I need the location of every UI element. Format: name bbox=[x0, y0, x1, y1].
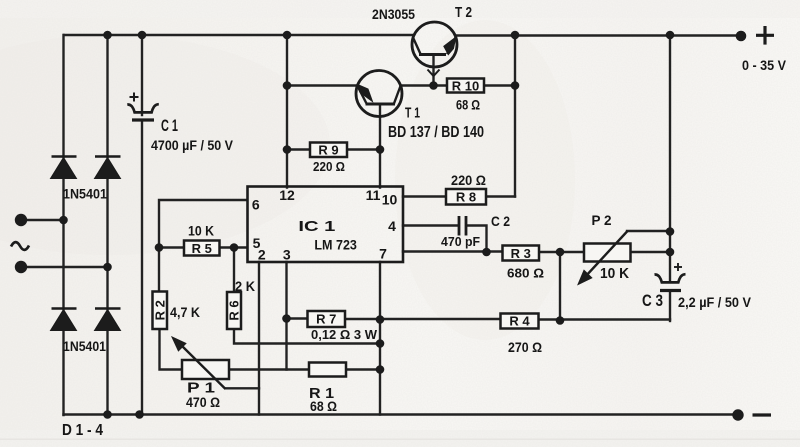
svg-text:1N5401: 1N5401 bbox=[63, 186, 107, 202]
svg-text:10 K: 10 K bbox=[188, 223, 214, 239]
svg-text:6: 6 bbox=[252, 197, 260, 213]
svg-text:10 K: 10 K bbox=[600, 265, 629, 282]
svg-text:470 Ω: 470 Ω bbox=[186, 394, 220, 410]
svg-text:R 2: R 2 bbox=[153, 300, 168, 320]
svg-text:R 9: R 9 bbox=[318, 143, 338, 158]
svg-text:68 Ω: 68 Ω bbox=[310, 398, 337, 414]
svg-text:2: 2 bbox=[258, 247, 266, 263]
svg-text:BD 137 / BD 140: BD 137 / BD 140 bbox=[388, 124, 484, 141]
svg-text:4,7 K: 4,7 K bbox=[170, 304, 200, 320]
svg-text:12: 12 bbox=[279, 187, 295, 203]
svg-text:R 7: R 7 bbox=[316, 312, 336, 327]
svg-text:680 Ω: 680 Ω bbox=[507, 266, 544, 281]
svg-text:T 1: T 1 bbox=[405, 105, 420, 122]
svg-text:R 10: R 10 bbox=[452, 79, 479, 94]
svg-text:C 2: C 2 bbox=[491, 213, 510, 229]
svg-text:0 - 35 V: 0 - 35 V bbox=[742, 57, 787, 73]
svg-text:11: 11 bbox=[366, 187, 381, 203]
svg-text:4700 µF / 50 V: 4700 µF / 50 V bbox=[151, 137, 234, 153]
svg-text:R 4: R 4 bbox=[509, 314, 530, 329]
svg-text:C 3: C 3 bbox=[642, 291, 663, 310]
svg-text:2 K: 2 K bbox=[235, 278, 255, 294]
svg-text:LM 723: LM 723 bbox=[314, 237, 357, 253]
svg-text:3: 3 bbox=[283, 247, 291, 263]
svg-text:470 pF: 470 pF bbox=[441, 234, 480, 249]
svg-text:2N3055: 2N3055 bbox=[372, 7, 415, 22]
svg-text:0,12 Ω 3 W: 0,12 Ω 3 W bbox=[311, 327, 378, 342]
svg-text:4: 4 bbox=[388, 218, 396, 234]
svg-text:R 5: R 5 bbox=[192, 241, 212, 256]
svg-text:68 Ω: 68 Ω bbox=[456, 97, 480, 113]
svg-text:220 Ω: 220 Ω bbox=[451, 172, 486, 188]
svg-text:P 2: P 2 bbox=[592, 212, 612, 228]
svg-text:7: 7 bbox=[379, 246, 387, 262]
svg-text:R 6: R 6 bbox=[227, 300, 242, 320]
svg-text:270 Ω: 270 Ω bbox=[508, 339, 542, 355]
svg-text:2,2 µF / 50 V: 2,2 µF / 50 V bbox=[678, 294, 752, 310]
svg-text:220 Ω: 220 Ω bbox=[313, 159, 345, 174]
svg-text:C 1: C 1 bbox=[161, 116, 178, 135]
svg-text:T 2: T 2 bbox=[455, 4, 472, 21]
svg-text:D 1 - 4: D 1 - 4 bbox=[62, 422, 103, 439]
svg-text:1N5401: 1N5401 bbox=[63, 338, 106, 354]
svg-text:10: 10 bbox=[382, 192, 398, 208]
svg-text:R 8: R 8 bbox=[456, 190, 476, 205]
svg-text:IC 1: IC 1 bbox=[298, 218, 335, 235]
svg-text:R 3: R 3 bbox=[511, 246, 531, 261]
